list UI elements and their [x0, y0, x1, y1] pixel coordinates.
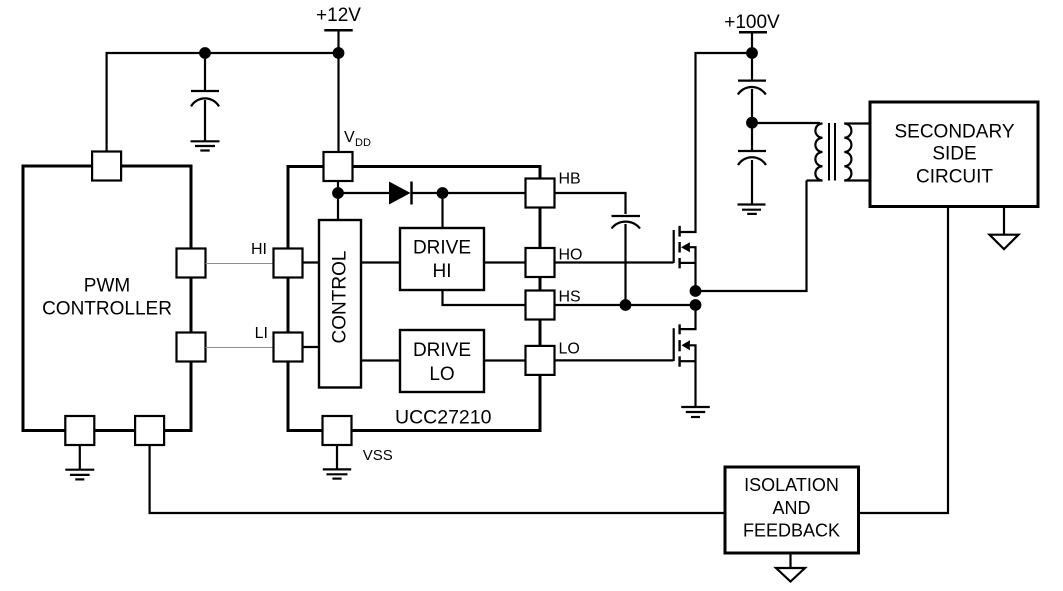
- junction dot HS node: [690, 299, 702, 311]
- wire drive hi to HO pin: [484, 261, 526, 263]
- wire PWM feedback to isolation block: [150, 445, 725, 513]
- control block: [319, 220, 361, 388]
- ground under Q2: [681, 407, 710, 417]
- svg-text:LI: LI: [255, 325, 268, 342]
- wire PWM gnd pin to ground: [79, 445, 81, 469]
- wire switch node to transformer primary bottom: [696, 181, 807, 292]
- svg-text:LO: LO: [429, 364, 454, 385]
- svg-text:VSS: VSS: [363, 447, 393, 464]
- PWM controller block: [23, 166, 191, 431]
- pin box UCC HS: [526, 291, 555, 320]
- pin label VDD: [344, 129, 371, 149]
- pin box UCC LI: [274, 333, 303, 362]
- junction dot bootstrap-HS: [620, 299, 632, 311]
- wire +12V rail: [107, 53, 339, 152]
- svg-text:HO: HO: [559, 247, 583, 264]
- op-amp U1 UCC27210 block: [288, 167, 540, 431]
- junction dot at +12V rail left: [199, 47, 211, 59]
- isolation and feedback block: [725, 467, 859, 553]
- capacitor C1 (VDD bypass): [191, 91, 219, 106]
- pin box UCC LO: [526, 346, 555, 375]
- wire diode to HB pin: [413, 192, 526, 194]
- svg-text:HB: HB: [559, 171, 581, 188]
- wire LI link (thin): [206, 347, 274, 349]
- pin box UCC VSS: [323, 416, 352, 445]
- wire secondary block to isolation block: [859, 207, 949, 514]
- ground under C1: [191, 141, 220, 150]
- svg-text:UCC27210: UCC27210: [395, 407, 492, 429]
- wire HI link (thin): [206, 263, 274, 265]
- svg-text:HS: HS: [559, 289, 581, 306]
- power +12V symbol: [316, 5, 361, 53]
- svg-text:FEEDBACK: FEEDBACK: [743, 521, 840, 541]
- wire LI pin to control: [303, 346, 320, 348]
- svg-text:CONTROLLER: CONTROLLER: [42, 299, 172, 320]
- wire +100V rail to C4: [751, 53, 753, 80]
- wire HI pin to control: [303, 261, 320, 263]
- svg-text:CIRCUIT: CIRCUIT: [916, 166, 993, 187]
- pin box UCC VDD: [324, 152, 353, 181]
- wire HS pin to switch node: [555, 304, 696, 306]
- power +100V symbol: [724, 12, 780, 53]
- wire cap node to transformer primary top: [752, 122, 820, 124]
- junction dot +100V rail: [746, 47, 758, 59]
- chassis ground under isolation block: [776, 553, 805, 582]
- capacitor C5 (bulk bottom): [738, 151, 766, 165]
- capacitor C4 (bulk top): [738, 81, 766, 95]
- svg-text:DD: DD: [355, 137, 371, 149]
- ground under VSS: [323, 469, 351, 478]
- svg-text:+100V: +100V: [724, 12, 780, 33]
- capacitor C3 (bootstrap): [612, 216, 641, 229]
- DRIVE LO block: [400, 330, 484, 392]
- svg-text:HI: HI: [433, 261, 452, 282]
- chassis ground under secondary block: [990, 207, 1019, 250]
- svg-text:V: V: [344, 129, 355, 146]
- wire rail to VDD pin: [337, 53, 339, 153]
- junction dot between caps: [746, 117, 758, 129]
- svg-text:+12V: +12V: [316, 5, 361, 26]
- wire diode node to DRIVE HI top: [441, 193, 443, 228]
- secondary side circuit block: [870, 102, 1038, 207]
- svg-text:SECONDARY: SECONDARY: [894, 122, 1014, 143]
- wire C4 to C5: [751, 89, 753, 151]
- transformer T1: [807, 123, 871, 181]
- wire VDD node to diode: [338, 192, 389, 194]
- pin box UCC HI: [274, 249, 303, 278]
- svg-text:DRIVE: DRIVE: [413, 237, 471, 258]
- junction dot under +12V bar: [333, 47, 345, 59]
- wire drive hi bottom to HS pin: [443, 290, 526, 305]
- pin box UCC HO: [526, 248, 555, 277]
- pin box PWM HI out: [177, 249, 206, 278]
- wire HB pin to bootstrap cap: [555, 193, 626, 214]
- svg-text:DRIVE: DRIVE: [413, 340, 471, 361]
- wire drive lo to LO pin: [484, 359, 526, 361]
- transistor Q2 (low side MOSFET): [674, 305, 696, 407]
- wire C5 to ground: [751, 160, 753, 204]
- DRIVE HI block: [400, 228, 484, 290]
- pin box UCC HB: [526, 179, 555, 208]
- svg-text:AND: AND: [772, 498, 810, 518]
- svg-text:PWM: PWM: [84, 276, 130, 297]
- svg-text:ISOLATION: ISOLATION: [744, 475, 839, 495]
- wire VSS pin to ground: [336, 445, 338, 469]
- ground under PWM: [65, 470, 94, 480]
- ground under C5: [738, 205, 766, 214]
- wire C1 to ground: [204, 100, 206, 141]
- pin box PWM FB (bottom right): [135, 416, 164, 445]
- svg-text:SIDE: SIDE: [932, 144, 976, 165]
- diode D1 (bootstrap): [389, 182, 412, 205]
- pin box PWM VDD (top): [92, 152, 121, 181]
- svg-text:CONTROL: CONTROL: [330, 251, 351, 344]
- wire control to drive lo: [361, 359, 400, 361]
- wire VDD pin to internal node: [337, 181, 339, 220]
- junction dot after diode: [437, 187, 449, 199]
- wire LO pin to Q2 gate: [555, 359, 674, 361]
- wire bootstrap cap to HS node: [624, 224, 626, 305]
- transistor Q1 (high side MOSFET): [674, 53, 752, 291]
- junction dot switch node: [690, 285, 702, 297]
- junction dot VDD node: [332, 187, 344, 199]
- svg-text:LO: LO: [559, 341, 580, 358]
- pin box PWM GND (bottom left): [65, 416, 94, 445]
- wire HO pin to Q1 gate: [555, 261, 674, 263]
- svg-text:HI: HI: [251, 241, 267, 258]
- wire control to drive hi: [361, 261, 400, 263]
- wire from rail to capacitor C1: [204, 53, 206, 90]
- pin box PWM LI out: [177, 333, 206, 362]
